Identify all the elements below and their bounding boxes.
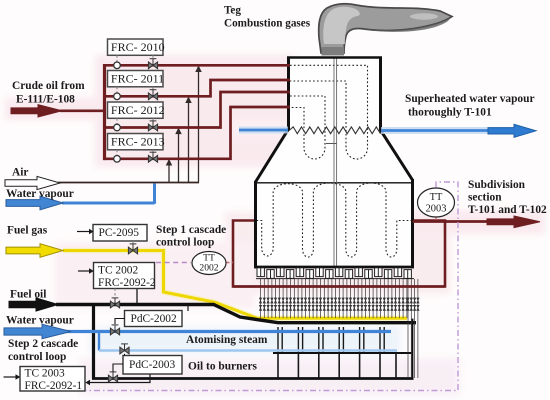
PdC-2003 valve link xyxy=(124,354,126,356)
svg-text:PC-2095: PC-2095 xyxy=(99,227,140,239)
convection coil pass 1-2 (dotted) xyxy=(290,65,368,159)
signal TT-2002 to TC-2002 xyxy=(156,262,191,264)
crude feed line xyxy=(60,109,106,112)
svg-text:control loop: control loop xyxy=(156,237,214,249)
right shoulder slope xyxy=(381,130,413,180)
burner risers and riser valves xyxy=(259,279,419,378)
svg-text:FRC-2092-1: FRC-2092-1 xyxy=(25,380,83,392)
oil to burners header xyxy=(92,377,414,380)
convection coil pass 3-4 (dotted) xyxy=(290,96,325,159)
svg-text:Water vapour: Water vapour xyxy=(6,188,74,200)
controller TC-2003/FRC-2092-1 xyxy=(20,367,85,392)
svg-text:control loop: control loop xyxy=(8,351,66,363)
air distribution risers xyxy=(167,67,201,183)
plume base xyxy=(322,47,345,56)
transmitter TT-2002 xyxy=(192,252,226,275)
PdC-2002 valve link xyxy=(115,319,125,325)
svg-text:Fuel gas: Fuel gas xyxy=(7,225,48,237)
svg-text:Subdivision: Subdivision xyxy=(468,179,526,191)
superheated steam arrow xyxy=(488,124,536,137)
fuel oil drop to burner oil header xyxy=(92,305,95,379)
impulse line FRC-2013 xyxy=(116,150,118,156)
radiant right wall xyxy=(411,179,414,268)
PdC-2002 pressure tap xyxy=(187,305,189,312)
plume shading xyxy=(364,17,452,32)
steam line into convection xyxy=(239,129,288,132)
svg-text:Combustion gases: Combustion gases xyxy=(224,18,311,30)
svg-text:Crude oil from: Crude oil from xyxy=(12,80,85,92)
steam/oil cross connectors xyxy=(278,327,384,353)
fuel oil line xyxy=(56,305,416,323)
impulse line FRC-2010 xyxy=(116,55,118,62)
stack left wall xyxy=(287,57,290,130)
TC-2003 setpoint arrow xyxy=(4,376,16,378)
flow sensor 1 xyxy=(114,62,121,69)
atomising steam secondary header xyxy=(99,349,397,351)
svg-text:PdC-2002: PdC-2002 xyxy=(131,313,178,325)
TC-2002 output drop xyxy=(136,289,138,304)
plume inner highlight xyxy=(323,7,360,44)
fuel gas control valve xyxy=(128,244,137,254)
controller PC-2095 xyxy=(93,225,147,242)
signal TT-2002 to furnace xyxy=(227,262,234,264)
svg-text:T-101 and T-102: T-101 and T-102 xyxy=(468,204,547,216)
svg-text:thoroughly T-101: thoroughly T-101 xyxy=(408,107,492,119)
controller FRC-2011 xyxy=(108,71,164,87)
svg-text:FRC- 2013: FRC- 2013 xyxy=(111,135,165,149)
burner row xyxy=(256,268,414,279)
oil burner feeders xyxy=(278,354,396,379)
svg-text:FRC- 2012: FRC- 2012 xyxy=(111,103,165,117)
PdC-2003 oil valve link xyxy=(113,364,123,372)
oil distribution mid header xyxy=(273,352,413,354)
atomising steam main xyxy=(66,330,391,333)
tube sheet tick xyxy=(326,143,337,145)
svg-text:Air: Air xyxy=(12,167,28,179)
stack top edge xyxy=(287,56,382,59)
svg-text:Step 2 cascade: Step 2 cascade xyxy=(8,338,78,350)
water vapour arrow (upper) xyxy=(6,196,63,210)
controller FRC-2012 xyxy=(108,102,164,118)
svg-text:TC 2003: TC 2003 xyxy=(25,368,65,380)
control valve pass 2 xyxy=(148,90,157,100)
water vapour line (to air) xyxy=(62,202,155,205)
svg-text:Oil to burners: Oil to burners xyxy=(188,361,258,373)
flow sensor 3 xyxy=(114,124,121,131)
steam to burners valve xyxy=(120,344,129,354)
svg-text:Fuel oil: Fuel oil xyxy=(10,289,46,301)
combustion gases plume arrow xyxy=(319,4,452,53)
crude outlet header bottom edge (over risers) xyxy=(233,285,445,288)
radiant box top edge xyxy=(256,182,413,184)
subdivision outlet arrow xyxy=(487,216,540,228)
svg-text:Superheated water vapour: Superheated water vapour xyxy=(405,93,535,105)
radiant floor xyxy=(254,266,414,269)
control valve pass 1 xyxy=(148,59,157,69)
PC-2095 valve signal xyxy=(132,241,134,244)
furnace radiant box xyxy=(256,182,413,267)
controller FRC-2013 xyxy=(108,134,164,150)
TC-2003 feedback line xyxy=(90,375,150,383)
atomising steam branch drop xyxy=(98,332,100,351)
furnace stack interior fill xyxy=(256,57,413,182)
crude outlet header (maroon loop) xyxy=(233,221,445,287)
svg-text:section: section xyxy=(468,192,502,204)
crude pass line 2 xyxy=(105,80,291,96)
svg-text:Teg: Teg xyxy=(224,5,241,17)
radiant serpentine coil (dotted) xyxy=(257,183,412,257)
signal TT-2003 tap xyxy=(435,218,437,221)
step 2 cascade signal loop xyxy=(86,182,459,391)
svg-text:E-111/E-108: E-111/E-108 xyxy=(16,94,75,106)
atomising steam valve xyxy=(110,325,119,335)
transmitter TT-2003 xyxy=(418,188,455,217)
svg-text:FRC- 2011: FRC- 2011 xyxy=(111,72,164,86)
fuel oil arrow xyxy=(9,298,58,311)
control valve pass 3 xyxy=(148,121,157,131)
svg-text:Step 1 cascade: Step 1 cascade xyxy=(156,224,226,236)
flow sensor 2 xyxy=(114,93,121,100)
crude pass line 3 xyxy=(105,92,291,128)
svg-text:2002: 2002 xyxy=(199,263,218,274)
crude manifold trunk xyxy=(103,64,106,160)
center division wall xyxy=(333,58,335,266)
oil to burners valve xyxy=(108,372,117,382)
stack right wall xyxy=(379,57,382,131)
crude oil inlet arrow xyxy=(11,105,62,117)
convection bank zigzag xyxy=(289,127,381,134)
radiant left wall xyxy=(254,181,257,268)
controller TC-2002/FRC-2092-2 xyxy=(94,263,155,289)
superheated steam outlet line xyxy=(381,129,489,132)
svg-text:FRC- 2010: FRC- 2010 xyxy=(111,40,165,54)
plume tip highlight xyxy=(410,13,438,19)
superheated steam halo xyxy=(381,127,488,134)
svg-text:2003: 2003 xyxy=(426,204,447,215)
fuel gas arrow xyxy=(6,244,63,258)
water vapour arrow (lower) xyxy=(4,324,71,338)
controller PdC-2003 xyxy=(123,356,182,375)
svg-text:Water vapour: Water vapour xyxy=(6,315,74,327)
air line xyxy=(58,182,199,184)
TC-2002 setpoint arrow xyxy=(78,270,89,272)
controller FRC-2010 xyxy=(108,39,164,55)
air inlet arrow xyxy=(5,176,60,189)
controller PdC-2002 xyxy=(125,311,183,327)
crude pass line 4 xyxy=(105,107,291,159)
svg-text:PdC-2003: PdC-2003 xyxy=(129,359,176,371)
control valve pass 4 xyxy=(148,152,157,162)
oil header right riser xyxy=(412,319,414,379)
crude pass line 1 xyxy=(105,64,291,67)
svg-text:Atomising steam: Atomising steam xyxy=(186,334,268,346)
flow sensor 4 xyxy=(114,156,121,163)
fuel gas halo xyxy=(63,251,407,319)
svg-text:FRC-2092-2: FRC-2092-2 xyxy=(98,277,156,289)
impulse line FRC-2011 xyxy=(116,87,118,93)
svg-text:TT: TT xyxy=(430,192,443,203)
PC-2095 setpoint arrow xyxy=(77,231,89,233)
svg-text:TC 2002: TC 2002 xyxy=(98,264,138,276)
impulse line FRC-2012 xyxy=(116,118,118,124)
crude outlet line xyxy=(413,220,489,223)
left shoulder slope xyxy=(256,129,289,182)
fuel oil control valve xyxy=(110,298,119,308)
fuel gas line xyxy=(63,251,407,319)
